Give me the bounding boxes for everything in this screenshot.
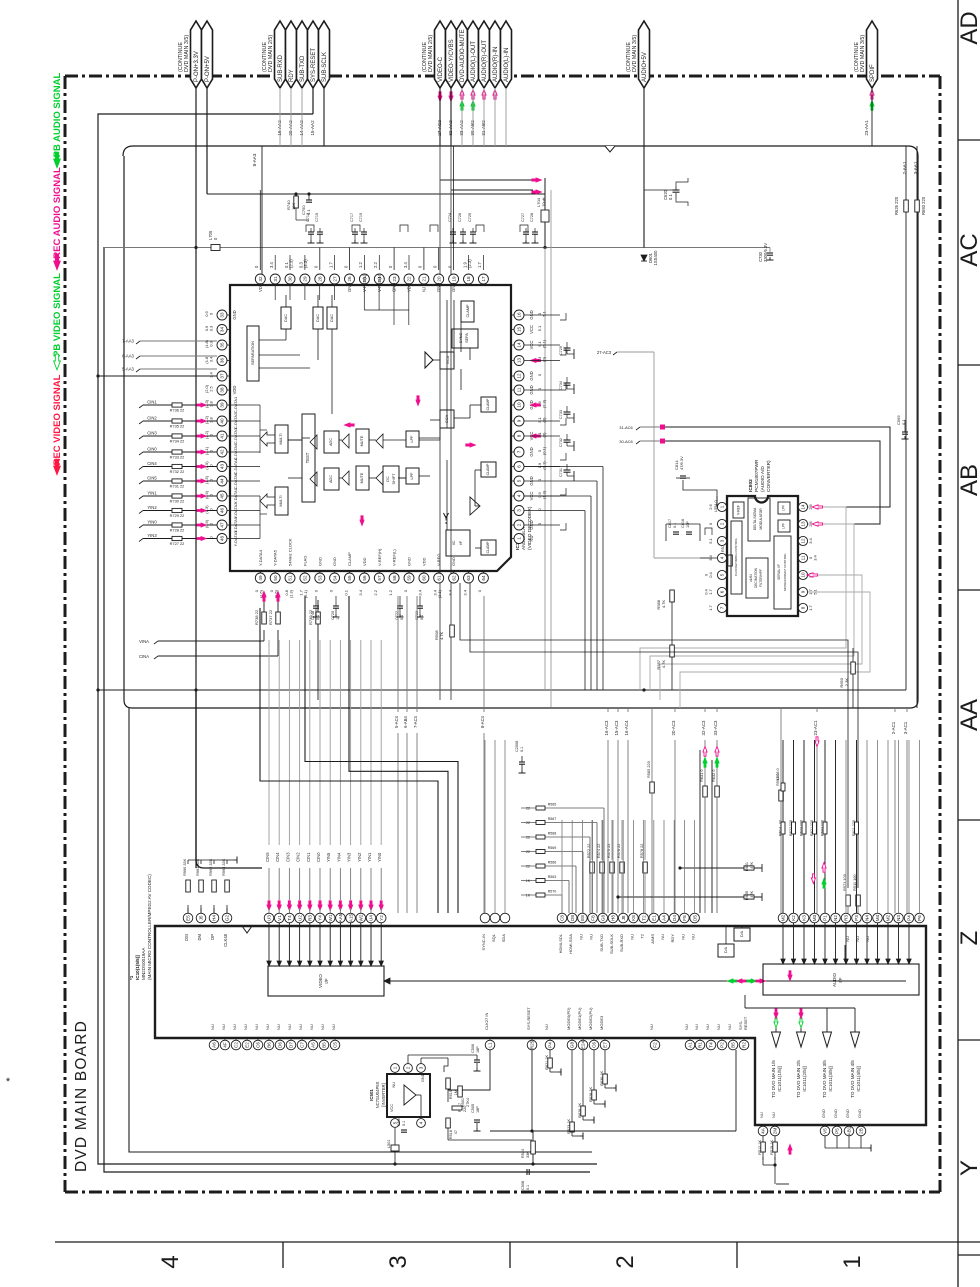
svg-text:C817: C817 xyxy=(668,519,672,528)
svg-text:7-AA3: 7-AA3 xyxy=(122,339,134,344)
svg-text:NU: NU xyxy=(529,535,534,541)
svg-text:54: 54 xyxy=(332,575,337,581)
svg-text:31-AB2: 31-AB2 xyxy=(481,120,486,136)
svg-text:R563: R563 xyxy=(548,875,557,879)
svg-text:R1: R1 xyxy=(698,1042,703,1048)
svg-text:M2: M2 xyxy=(886,914,891,921)
svg-text:C725: C725 xyxy=(468,213,472,222)
svg-text:18P: 18P xyxy=(476,1046,480,1053)
svg-text:R566: R566 xyxy=(548,861,557,865)
svg-text:V-REG: V-REG xyxy=(436,554,441,566)
svg-text:63: 63 xyxy=(466,575,471,581)
svg-text:C748: C748 xyxy=(311,611,315,620)
svg-text:51: 51 xyxy=(288,575,293,581)
svg-text:NU: NU xyxy=(210,1024,215,1030)
svg-text:NU: NU xyxy=(855,936,860,942)
svg-text:1SS400: 1SS400 xyxy=(653,250,658,266)
svg-text:YIN3: YIN3 xyxy=(147,533,157,538)
svg-text:R727 22: R727 22 xyxy=(170,541,185,546)
svg-text:(3.1): (3.1) xyxy=(204,446,209,455)
svg-text:NU: NU xyxy=(589,934,594,940)
svg-text:32-AC3: 32-AC3 xyxy=(701,720,706,735)
svg-text:43: 43 xyxy=(220,464,225,470)
svg-text:DAC: DAC xyxy=(330,314,334,322)
svg-text:YIN1: YIN1 xyxy=(367,852,372,862)
svg-text:MODE0(PD): MODE0(PD) xyxy=(566,1007,571,1030)
svg-text:Y4: Y4 xyxy=(318,915,323,921)
svg-text:R3: R3 xyxy=(844,915,849,921)
svg-text:TEST: TEST xyxy=(305,452,310,463)
svg-text:DVD MAIN BOARD: DVD MAIN BOARD xyxy=(73,1020,90,1172)
svg-text:C-DATA2: C-DATA2 xyxy=(233,412,238,429)
svg-text:R518: R518 xyxy=(449,1130,453,1139)
svg-text:C505: C505 xyxy=(471,1104,475,1113)
svg-text:20-AC3: 20-AC3 xyxy=(671,720,676,735)
svg-text:ADC: ADC xyxy=(329,438,333,446)
svg-text:C504: C504 xyxy=(397,1117,401,1126)
svg-text:CIN0: CIN0 xyxy=(316,852,321,862)
svg-text:(0): (0) xyxy=(542,356,547,362)
svg-text:2.6: 2.6 xyxy=(708,503,713,509)
svg-text:(1.2): (1.2) xyxy=(204,430,209,439)
svg-text:22: 22 xyxy=(526,865,530,869)
svg-text:14: 14 xyxy=(801,504,806,510)
svg-text:V-REF: V-REF xyxy=(737,505,741,515)
svg-text:NJ: NJ xyxy=(421,287,426,292)
svg-text:W1: W1 xyxy=(328,914,333,921)
svg-text:DAC: DAC xyxy=(316,314,320,322)
svg-text:VINA: VINA xyxy=(139,639,149,644)
svg-text:0.3: 0.3 xyxy=(209,325,214,331)
svg-text:26: 26 xyxy=(347,276,352,282)
svg-text:E7: E7 xyxy=(603,1042,608,1048)
svg-text:0.4: 0.4 xyxy=(704,588,709,594)
svg-text:CLAMP: CLAMP xyxy=(486,541,490,553)
svg-text:AUDIO(R)-IN: AUDIO(R)-IN xyxy=(493,47,499,82)
svg-text:AUDIO(R)-OUT: AUDIO(R)-OUT xyxy=(482,40,488,82)
svg-text:C728: C728 xyxy=(530,213,534,222)
svg-text:R735 22: R735 22 xyxy=(170,424,185,429)
svg-text:(0.1): (0.1) xyxy=(542,446,547,455)
svg-text:NU: NU xyxy=(865,936,870,942)
svg-text:SYNC-IN: SYNC-IN xyxy=(481,934,486,951)
svg-text:R626 220: R626 220 xyxy=(894,196,899,215)
svg-text:TO DVD MAIN 2/5: TO DVD MAIN 2/5 xyxy=(796,1060,801,1098)
svg-text:5.1: 5.1 xyxy=(537,325,542,331)
svg-text:NU: NU xyxy=(759,1112,764,1118)
svg-text:27-AC3: 27-AC3 xyxy=(597,350,612,355)
svg-text:CIN5: CIN5 xyxy=(147,476,157,481)
svg-text:YIN5: YIN5 xyxy=(326,852,331,862)
svg-text:4.7K: 4.7K xyxy=(661,660,666,669)
svg-text:AUDIO+5V: AUDIO+5V xyxy=(642,52,648,82)
svg-text:(1.3): (1.3) xyxy=(542,490,547,499)
svg-text:CLAMP: CLAMP xyxy=(347,552,352,566)
svg-text:NU: NU xyxy=(221,1024,226,1030)
svg-text:R565: R565 xyxy=(548,803,557,807)
svg-text:15: 15 xyxy=(517,327,522,333)
svg-text:SUB-TXD: SUB-TXD xyxy=(599,934,604,952)
svg-text:33: 33 xyxy=(220,312,225,318)
svg-text:DAC: DAC xyxy=(284,314,288,322)
svg-text:DVD MAIN 2/5): DVD MAIN 2/5) xyxy=(268,35,274,72)
svg-text:42: 42 xyxy=(220,449,225,455)
svg-text:P5: P5 xyxy=(835,1128,840,1134)
svg-text:DVD-AUDIO-MUTE: DVD-AUDIO-MUTE xyxy=(460,29,466,82)
svg-text:C731: C731 xyxy=(559,468,563,477)
svg-text:YIN2: YIN2 xyxy=(147,505,157,510)
svg-text:IC10(1(5/5)]: IC10(1(5/5)] xyxy=(135,955,140,980)
svg-text:IC501: IC501 xyxy=(369,1089,374,1101)
svg-text:*: * xyxy=(6,1076,11,1088)
svg-text:I/F: I/F xyxy=(324,978,329,983)
svg-text:27K4: 27K4 xyxy=(466,1098,470,1107)
svg-text:R737 22: R737 22 xyxy=(268,609,273,625)
svg-text:Y-DATA2: Y-DATA2 xyxy=(233,502,238,519)
svg-text:P4: P4 xyxy=(907,915,912,921)
svg-text:30-AB2: 30-AB2 xyxy=(470,120,475,136)
svg-text:R733 22: R733 22 xyxy=(170,455,185,460)
svg-text:4: 4 xyxy=(419,1121,424,1124)
svg-text:C2: C2 xyxy=(234,1042,239,1048)
svg-text:R576 22: R576 22 xyxy=(617,844,621,858)
svg-text:3-AC1: 3-AC1 xyxy=(903,721,908,734)
svg-text:22: 22 xyxy=(407,276,412,282)
svg-text:NU: NU xyxy=(705,1024,710,1030)
svg-text:(0.9): (0.9) xyxy=(204,519,209,528)
svg-text:5.1: 5.1 xyxy=(708,537,713,543)
svg-text:3: 3 xyxy=(419,1066,424,1069)
svg-text:39: 39 xyxy=(220,402,225,408)
svg-text:MODE3: MODE3 xyxy=(599,1015,604,1030)
svg-text:E8: E8 xyxy=(580,915,585,921)
svg-text:35: 35 xyxy=(220,342,225,348)
svg-text:MODE2(PU): MODE2(PU) xyxy=(588,1007,593,1030)
svg-text:1.7: 1.7 xyxy=(328,262,333,268)
svg-text:B5: B5 xyxy=(322,1042,327,1048)
svg-text:33K: 33K xyxy=(526,1151,530,1158)
svg-text:NU: NU xyxy=(243,1024,248,1030)
svg-text:MN2DS0019AA: MN2DS0019AA xyxy=(141,947,146,980)
svg-text:C727: C727 xyxy=(521,213,525,222)
svg-text:5.1: 5.1 xyxy=(542,310,547,316)
svg-text:HDMI-SDL: HDMI-SDL xyxy=(558,933,563,953)
svg-text:J5: J5 xyxy=(199,915,204,920)
svg-text:M2: M2 xyxy=(781,914,786,921)
svg-text:IC1011(3/5)]: IC1011(3/5)] xyxy=(828,1066,833,1091)
svg-text:49: 49 xyxy=(258,575,263,581)
svg-text:P2: P2 xyxy=(720,1042,725,1048)
svg-text:(2.2): (2.2) xyxy=(204,415,209,424)
svg-text:C726: C726 xyxy=(458,213,462,222)
svg-text:R731 22: R731 22 xyxy=(170,484,185,489)
svg-text:(5.1): (5.1) xyxy=(542,339,547,348)
svg-text:DVD MAIN 3/5): DVD MAIN 3/5) xyxy=(632,35,638,72)
svg-text:R603: R603 xyxy=(821,827,825,836)
svg-text:MUTE: MUTE xyxy=(360,472,364,483)
svg-text:6-AA3: 6-AA3 xyxy=(122,354,134,359)
svg-text:8: 8 xyxy=(801,606,806,609)
svg-text:10uH: 10uH xyxy=(541,197,546,207)
svg-text:2-AC1: 2-AC1 xyxy=(891,721,896,734)
svg-text:0.1: 0.1 xyxy=(400,615,404,620)
svg-text:CLK27 IN: CLK27 IN xyxy=(484,1013,489,1030)
svg-text:G8: G8 xyxy=(570,1041,575,1048)
svg-text:I/F: I/F xyxy=(459,540,463,545)
svg-text:R623: R623 xyxy=(800,827,804,836)
svg-text:3: 3 xyxy=(720,539,725,542)
svg-text:GND: GND xyxy=(529,447,534,456)
svg-text:4: 4 xyxy=(720,556,725,559)
svg-text:16-AA2: 16-AA2 xyxy=(277,120,282,136)
svg-text:YIN1: YIN1 xyxy=(147,491,157,496)
svg-text:1.2: 1.2 xyxy=(388,589,393,595)
svg-text:2: 2 xyxy=(720,522,725,525)
svg-text:NU: NU xyxy=(684,1024,689,1030)
svg-text:DP: DP xyxy=(210,934,215,940)
svg-text:1K: 1K xyxy=(526,894,531,898)
svg-text:11: 11 xyxy=(801,555,806,560)
svg-text:CLK48: CLK48 xyxy=(223,933,228,946)
svg-text:C729: C729 xyxy=(559,346,563,355)
svg-text:N3: N3 xyxy=(896,915,901,921)
svg-text:3: 3 xyxy=(517,509,522,512)
svg-text:P-ON+3.3V: P-ON+3.3V xyxy=(194,51,200,82)
svg-text:0.9: 0.9 xyxy=(204,310,209,316)
svg-text:R990 33K: R990 33K xyxy=(182,858,187,876)
svg-text:PB AUDIO SIGNAL: PB AUDIO SIGNAL xyxy=(52,72,63,157)
svg-text:IC802: IC802 xyxy=(748,479,754,492)
svg-text:R605: R605 xyxy=(745,891,749,900)
svg-text:V5: V5 xyxy=(823,1128,828,1134)
svg-text:N4: N4 xyxy=(865,915,870,921)
svg-text:PB VIDEO SIGNAL: PB VIDEO SIGNAL xyxy=(52,273,63,357)
svg-text:F2: F2 xyxy=(653,1042,658,1048)
svg-text:R730 22: R730 22 xyxy=(170,499,185,504)
svg-text:AUDIO(L)-OUT: AUDIO(L)-OUT xyxy=(471,41,477,82)
svg-text:0.1: 0.1 xyxy=(316,615,320,620)
svg-text:DC: DC xyxy=(386,476,390,482)
svg-text:NU: NU xyxy=(694,1024,699,1030)
svg-text:D5: D5 xyxy=(692,915,697,921)
svg-text:R567: R567 xyxy=(548,817,557,821)
svg-text:VDD: VDD xyxy=(421,557,426,566)
svg-text:D/A: D/A xyxy=(740,930,744,937)
svg-text:1.7: 1.7 xyxy=(477,262,482,268)
svg-text:GND: GND xyxy=(845,1109,850,1118)
svg-text:D4: D4 xyxy=(672,915,677,921)
svg-text:Y-DATA0: Y-DATA0 xyxy=(233,516,238,533)
svg-text:56: 56 xyxy=(362,575,367,581)
svg-text:J8: J8 xyxy=(621,915,626,920)
svg-text:62: 62 xyxy=(451,575,456,581)
svg-text:R2: R2 xyxy=(742,1042,747,1048)
svg-text:8-AA3: 8-AA3 xyxy=(252,153,257,166)
svg-text:V-REF(H): V-REF(H) xyxy=(377,548,382,566)
svg-text:SQL: SQL xyxy=(491,933,496,942)
svg-text:DELTA-SIGMA: DELTA-SIGMA xyxy=(753,507,757,530)
svg-text:Y-DATA3: Y-DATA3 xyxy=(233,530,238,547)
svg-text:REC VIDEO SIGNAL: REC VIDEO SIGNAL xyxy=(52,374,63,465)
svg-text:H8: H8 xyxy=(611,915,616,921)
svg-text:(2.3): (2.3) xyxy=(542,399,547,408)
svg-text:SERIAL I/F: SERIAL I/F xyxy=(777,564,781,580)
svg-text:44: 44 xyxy=(220,478,225,484)
svg-text:1.7: 1.7 xyxy=(708,588,713,594)
svg-text:41: 41 xyxy=(220,433,225,439)
svg-text:(1.0): (1.0) xyxy=(204,461,209,470)
svg-text:TO DVD MAIN 1/5: TO DVD MAIN 1/5 xyxy=(771,1060,776,1098)
svg-text:18K: 18K xyxy=(291,203,296,210)
svg-text:Y-DATA4: Y-DATA4 xyxy=(258,549,263,566)
svg-text:SUB-SCLK: SUB-SCLK xyxy=(322,52,328,82)
svg-text:F8: F8 xyxy=(682,915,687,921)
svg-text:P6: P6 xyxy=(917,915,922,921)
svg-text:C715: C715 xyxy=(315,213,319,222)
svg-text:14: 14 xyxy=(517,342,522,348)
svg-text:NU: NU xyxy=(691,934,696,940)
svg-text:220: 220 xyxy=(789,820,793,826)
svg-text:1K: 1K xyxy=(526,879,531,883)
svg-text:3.4: 3.4 xyxy=(418,589,423,595)
svg-text:GND: GND xyxy=(436,283,441,292)
svg-text:D8: D8 xyxy=(570,915,575,921)
svg-text:E24: E24 xyxy=(581,1040,586,1049)
svg-text:R992 33K: R992 33K xyxy=(208,858,213,876)
svg-text:C508: C508 xyxy=(521,1181,525,1190)
svg-text:NU: NU xyxy=(232,1024,237,1030)
svg-text:IC1011(4/5)]: IC1011(4/5)] xyxy=(856,1066,861,1091)
svg-text:64: 64 xyxy=(481,575,486,581)
svg-text:(2.0): (2.0) xyxy=(204,384,209,393)
svg-text:R585 220: R585 220 xyxy=(646,760,651,778)
svg-text:9: 9 xyxy=(517,419,522,422)
svg-text:61: 61 xyxy=(436,575,441,581)
svg-text:VIDEO-Y/CVBS: VIDEO-Y/CVBS xyxy=(449,39,455,82)
svg-text:15-AA2: 15-AA2 xyxy=(310,120,315,136)
svg-text:Y-DATA1: Y-DATA1 xyxy=(233,487,238,504)
svg-text:K3: K3 xyxy=(802,915,807,921)
svg-text:(2.3): (2.3) xyxy=(204,399,209,408)
svg-text:[INVERTER]: [INVERTER] xyxy=(381,1083,386,1106)
svg-text:0.1: 0.1 xyxy=(668,194,673,200)
svg-text:3.4: 3.4 xyxy=(808,537,813,543)
svg-text:C7: C7 xyxy=(300,1042,305,1048)
svg-text:R519: R519 xyxy=(449,1090,453,1099)
svg-text:10: 10 xyxy=(801,572,806,578)
svg-text:NU: NU xyxy=(320,1024,325,1030)
svg-text:12: 12 xyxy=(801,538,806,544)
svg-text:NU: NU xyxy=(265,1024,270,1030)
svg-text:CLOCK&TIMING CONTROL: CLOCK&TIMING CONTROL xyxy=(734,538,738,577)
svg-text:C6: C6 xyxy=(592,1042,597,1048)
svg-text:A4: A4 xyxy=(662,915,667,921)
svg-text:2.5: 2.5 xyxy=(209,385,214,391)
svg-text:16-AC4: 16-AC4 xyxy=(624,720,629,735)
svg-text:PCM1807PWR: PCM1807PWR xyxy=(754,459,760,492)
svg-text:Y2: Y2 xyxy=(379,915,384,921)
svg-text:1.7: 1.7 xyxy=(708,604,713,610)
svg-text:VCC: VCC xyxy=(390,1104,394,1112)
svg-text:R3: R3 xyxy=(308,915,313,921)
svg-text:47K: 47K xyxy=(750,862,754,869)
svg-text:LPF: LPF xyxy=(782,505,786,511)
svg-text:DVD MAIN 2/5): DVD MAIN 2/5) xyxy=(428,35,434,72)
svg-text:23-AC1: 23-AC1 xyxy=(813,720,818,735)
svg-text:A15: A15 xyxy=(348,913,353,922)
svg-text:IIC: IIC xyxy=(452,540,456,545)
svg-text:NU: NU xyxy=(298,1024,303,1030)
svg-text:22: 22 xyxy=(526,807,530,811)
svg-text:NU: NU xyxy=(629,934,634,940)
svg-text:3300/6.3V: 3300/6.3V xyxy=(763,243,768,262)
svg-text:2B: 2B xyxy=(859,1128,864,1134)
svg-text:R621 1K: R621 1K xyxy=(545,1055,549,1070)
svg-text:0.1: 0.1 xyxy=(343,589,348,595)
svg-text:3.4: 3.4 xyxy=(462,589,467,595)
svg-text:M4: M4 xyxy=(875,914,880,921)
svg-text:MODE/FORMAT CONTROL: MODE/FORMAT CONTROL xyxy=(783,553,787,591)
svg-text:FLAG: FLAG xyxy=(302,556,307,566)
svg-text:34: 34 xyxy=(220,327,225,333)
svg-text:0.1: 0.1 xyxy=(520,747,524,752)
svg-text:3.4: 3.4 xyxy=(403,262,408,268)
svg-text:0.4: 0.4 xyxy=(708,571,713,577)
svg-text:C506: C506 xyxy=(471,1044,475,1053)
svg-text:T2: T2 xyxy=(641,915,646,921)
svg-text:2.2: 2.2 xyxy=(373,589,378,595)
svg-text:U4: U4 xyxy=(369,915,374,921)
svg-text:20: 20 xyxy=(436,276,441,282)
svg-text:GND: GND xyxy=(347,283,352,292)
svg-text:SUB-RXD: SUB-RXD xyxy=(619,934,624,952)
svg-text:R601: R601 xyxy=(745,862,749,871)
svg-text:0.1: 0.1 xyxy=(526,1185,530,1190)
svg-text:R626 1K: R626 1K xyxy=(578,1103,582,1118)
svg-text:R623 1K: R623 1K xyxy=(567,1119,571,1134)
svg-text:U2: U2 xyxy=(297,915,302,921)
svg-text:VCC: VCC xyxy=(529,325,534,334)
svg-text:GND: GND xyxy=(833,1109,838,1118)
svg-text:1: 1 xyxy=(517,537,522,540)
svg-text:LPF: LPF xyxy=(410,472,414,480)
svg-text:ADC: ADC xyxy=(329,475,333,483)
svg-text:55: 55 xyxy=(347,575,352,581)
svg-text:DVD MAIN 3/5): DVD MAIN 3/5) xyxy=(860,35,866,72)
svg-text:47: 47 xyxy=(454,1130,458,1134)
svg-text:17: 17 xyxy=(481,276,486,282)
svg-text:4: 4 xyxy=(157,1255,184,1268)
svg-text:21: 21 xyxy=(422,276,427,282)
svg-text:R628 1K: R628 1K xyxy=(589,1087,593,1102)
svg-text:*1: *1 xyxy=(129,975,134,980)
svg-text:C713: C713 xyxy=(306,213,310,222)
svg-text:CLAMP: CLAMP xyxy=(486,398,490,410)
svg-text:54MHz CLOCK: 54MHz CLOCK xyxy=(288,538,293,566)
svg-text:SUB-TXD: SUB-TXD xyxy=(300,55,306,82)
svg-text:3.4: 3.4 xyxy=(209,356,214,362)
svg-text:1.2: 1.2 xyxy=(358,262,363,268)
svg-text:(0): (0) xyxy=(542,432,547,438)
svg-text:M3: M3 xyxy=(812,914,817,921)
svg-text:8: 8 xyxy=(517,434,522,437)
svg-text:B6: B6 xyxy=(267,1042,272,1048)
svg-text:58: 58 xyxy=(392,575,397,581)
svg-text:(2.3): (2.3) xyxy=(467,259,472,268)
svg-text:YIN0: YIN0 xyxy=(377,852,382,862)
svg-text:4.7K: 4.7K xyxy=(661,600,666,609)
svg-text:45: 45 xyxy=(220,493,225,499)
